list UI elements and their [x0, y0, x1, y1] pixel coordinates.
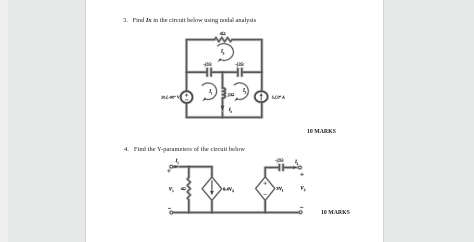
- svg-text:-j2Ω: -j2Ω: [203, 62, 212, 67]
- svg-text:5∠0° A: 5∠0° A: [272, 94, 285, 99]
- svg-text:1: 1: [177, 161, 179, 165]
- svg-text:1: 1: [211, 92, 213, 96]
- svg-text:2: 2: [304, 188, 306, 192]
- svg-text:3: 3: [223, 51, 225, 55]
- svg-text:-j2Ω: -j2Ω: [275, 158, 284, 163]
- svg-text:-j2Ω: -j2Ω: [236, 62, 245, 67]
- svg-text:20∠-90° V: 20∠-90° V: [161, 95, 179, 100]
- svg-text:x: x: [230, 110, 232, 114]
- svg-text:1: 1: [172, 189, 174, 193]
- svg-text:4Ω: 4Ω: [181, 186, 186, 191]
- svg-text:1: 1: [282, 188, 284, 192]
- svg-text:4Ω: 4Ω: [220, 31, 226, 37]
- svg-text:j1Ω: j1Ω: [227, 92, 235, 97]
- svg-text:2: 2: [297, 162, 299, 166]
- svg-text:2: 2: [232, 189, 234, 193]
- svg-text:2: 2: [245, 91, 247, 95]
